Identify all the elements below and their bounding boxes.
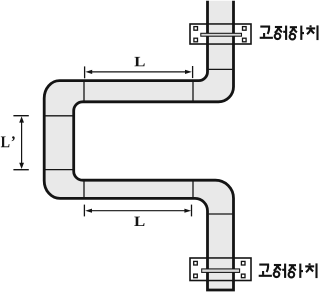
joint line on top vertical pipe bbox=[209, 68, 233, 70]
glyph chi bbox=[305, 263, 316, 278]
joint line bottom vertical pipe bbox=[209, 213, 233, 215]
glyph jeong bbox=[275, 26, 286, 40]
glyph jang bbox=[290, 26, 304, 40]
joint line bottom pipe right bbox=[192, 182, 194, 198]
dimension L' left: vertical double arrow bbox=[13, 116, 28, 170]
glyph go bbox=[260, 27, 273, 38]
joint line top pipe left bbox=[83, 82, 85, 101]
label "고정장치" top (drawn glyphs) bbox=[260, 25, 318, 40]
label L' bbox=[1, 136, 15, 147]
glyph chi bbox=[306, 25, 317, 40]
pipe body (S-shaped expansion loop) bbox=[44, 1, 233, 290]
label L bottom bbox=[134, 217, 144, 226]
label L top bbox=[134, 57, 144, 66]
glyph jang bbox=[289, 264, 303, 278]
bottom anchor plate bbox=[190, 258, 251, 281]
label "고정장치" bottom (drawn glyphs) bbox=[259, 263, 317, 278]
joint line bottom pipe left bbox=[83, 182, 85, 198]
glyph go bbox=[259, 265, 272, 276]
joint line top pipe right bbox=[192, 82, 194, 101]
joint line left pipe upper bbox=[45, 115, 72, 117]
glyph jeong bbox=[274, 264, 285, 278]
bottom anchor clamp bar bbox=[202, 269, 240, 273]
bottom anchor bolts bbox=[194, 261, 245, 277]
pipe walls bbox=[44, 1, 233, 290]
dimension L bottom: double arrow bbox=[84, 205, 191, 217]
top anchor plate bbox=[190, 24, 251, 44]
joint line left pipe lower bbox=[45, 169, 72, 171]
top anchor pipe overlay bbox=[208, 23, 234, 45]
bottom anchor pipe overlay bbox=[208, 257, 234, 282]
dimension L top: double arrow bbox=[85, 66, 193, 78]
top anchor clamp bar bbox=[201, 33, 242, 36]
top anchor bolts bbox=[194, 27, 246, 42]
